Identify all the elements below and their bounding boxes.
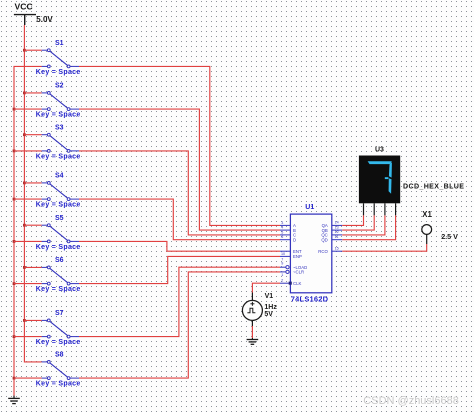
pin C of U1 — [280, 234, 290, 236]
svg-text:U3: U3 — [375, 147, 384, 154]
svg-text:11: 11 — [335, 235, 339, 239]
svg-text:X1: X1 — [422, 210, 432, 219]
svg-text:VCC: VCC — [15, 2, 33, 12]
svg-text:S1: S1 — [55, 40, 64, 47]
svg-text:4: 4 — [281, 226, 283, 230]
wire VCC bus to S3 pin — [24, 134, 41, 136]
svg-text:S2: S2 — [55, 83, 64, 90]
wire S7 output to U1 pin ~LOAD — [79, 267, 280, 336]
junction VCC bus at S4 — [23, 182, 26, 185]
svg-text:5: 5 — [281, 230, 283, 234]
pin ENT of U1 — [280, 250, 290, 252]
junction VCC bus at S5 — [23, 224, 26, 227]
svg-text:Key = Space: Key = Space — [36, 339, 81, 346]
wire ground bus to S8 pin — [14, 377, 42, 379]
svg-text:6: 6 — [281, 235, 283, 239]
wire U1 QD to U3 pin 4 — [342, 215, 395, 239]
svg-text:15: 15 — [335, 247, 339, 251]
wire V1 to ground — [251, 326, 253, 338]
svg-text:2: 2 — [281, 279, 283, 283]
svg-text:S3: S3 — [55, 124, 64, 131]
wire ground bus to S7 pin — [14, 336, 42, 338]
pin RCO of U1 — [332, 250, 343, 252]
switch S5 (SPDT, Key = Space) — [42, 224, 79, 243]
pin 2 of U3 — [373, 203, 375, 215]
svg-text:ENP: ENP — [293, 254, 302, 259]
wire U1 QB to U3 pin 2 — [342, 215, 374, 230]
svg-text:Key = Space: Key = Space — [36, 69, 81, 76]
pin 4 of U3 — [395, 203, 397, 215]
ground (left bus) — [8, 396, 20, 404]
switch S4 (SPDT, Key = Space) — [42, 182, 79, 201]
junction ground bus at S5 — [13, 240, 16, 243]
svg-text:CLK: CLK — [293, 281, 301, 286]
svg-text:5.0V: 5.0V — [36, 15, 53, 24]
wire S6 output to U1 pin ENP — [79, 256, 280, 283]
svg-text:9: 9 — [281, 261, 283, 265]
display U3 DCD_HEX_BLUE body — [359, 156, 400, 204]
svg-text:12: 12 — [335, 230, 339, 234]
wire VCC bus to S1 pin — [24, 49, 41, 51]
wire U1 RCO to probe X1 — [342, 244, 426, 251]
svg-text:74LS162D: 74LS162D — [291, 294, 329, 303]
svg-text:S4: S4 — [55, 173, 64, 180]
wire ground bus — [14, 66, 42, 395]
wire U1 QC to U3 pin 3 — [342, 215, 385, 235]
wire ground bus to S4 pin — [14, 198, 42, 200]
switch S1 (SPDT, Key = Space) — [42, 49, 79, 68]
svg-text:S5: S5 — [55, 215, 64, 222]
junction ground bus at S3 — [13, 150, 16, 153]
wire V1 to U1 CLK — [252, 283, 280, 292]
svg-text:S6: S6 — [55, 257, 64, 264]
wire VCC bus to S2 pin — [24, 92, 41, 94]
svg-text:13: 13 — [335, 225, 339, 229]
svg-text:14: 14 — [335, 221, 339, 225]
power symbol VCC 5.0V — [14, 2, 54, 25]
junction VCC bus at S3 — [23, 133, 26, 136]
ground (V1) — [247, 338, 259, 344]
wire S3 output to U1 pin C — [79, 151, 280, 235]
junction ground bus at S6 — [13, 282, 16, 285]
segment b (upper right) of U3 digit 7 — [389, 162, 392, 177]
switch S8 (SPDT, Key = Space) — [42, 361, 79, 380]
svg-text:S8: S8 — [55, 352, 64, 359]
source V1 1Hz 5V — [242, 293, 262, 327]
pin A of U1 — [280, 224, 290, 226]
svg-text:Key = Space: Key = Space — [36, 286, 81, 293]
wire ground bus to S2 pin — [14, 108, 42, 110]
junction VCC bus at S7 — [23, 319, 26, 322]
svg-text:1: 1 — [281, 273, 283, 277]
svg-text:V1: V1 — [265, 293, 274, 300]
junction VCC bus at S6 — [23, 266, 26, 269]
svg-text:1Hz: 1Hz — [264, 304, 277, 311]
svg-text:QD: QD — [321, 237, 327, 242]
wire VCC bus to S4 pin — [24, 182, 41, 184]
wire VCC bus to S6 pin — [24, 266, 41, 268]
wire S1 output to U1 pin A — [79, 66, 280, 225]
svg-text:3: 3 — [281, 221, 283, 225]
svg-text:U1: U1 — [305, 204, 314, 211]
pin QC of U1 — [332, 234, 343, 236]
probe X1 — [422, 225, 432, 244]
segment c (lower right) of U3 digit 7 — [389, 178, 392, 194]
switch S6 (SPDT, Key = Space) — [42, 266, 79, 285]
wire VCC bus to S5 pin — [24, 224, 41, 226]
pin 1 of U3 — [363, 203, 365, 215]
wire ground bus to S5 pin — [14, 240, 42, 242]
svg-text:2.5 V: 2.5 V — [441, 232, 458, 241]
svg-text:D: D — [293, 237, 296, 242]
pin ENP of U1 — [280, 255, 290, 257]
svg-text:Key = Space: Key = Space — [36, 202, 81, 209]
svg-text:DCD_HEX_BLUE: DCD_HEX_BLUE — [403, 182, 464, 190]
wire S2 output to U1 pin B — [79, 109, 280, 230]
svg-text:5V: 5V — [264, 311, 273, 318]
svg-text:Key = Space: Key = Space — [36, 381, 81, 388]
svg-text:~CLR: ~CLR — [293, 270, 304, 275]
pin QA of U1 — [332, 224, 343, 226]
svg-text:10: 10 — [281, 252, 285, 256]
junction ground bus at S2 — [13, 108, 16, 111]
switch S2 (SPDT, Key = Space) — [42, 92, 79, 111]
segment g tick of U3 — [385, 177, 389, 179]
pin CLK of U1 — [280, 282, 290, 284]
wire ground bus to S6 pin — [14, 283, 42, 285]
junction VCC bus at S2 — [23, 92, 26, 95]
segment a (top) of U3 digit 7 — [368, 161, 392, 164]
switch S7 (SPDT, Key = Space) — [42, 319, 79, 338]
pin ~CLR of U1 (active-low bubble) — [280, 271, 286, 273]
wire U1 QA to U3 pin 1 — [342, 215, 363, 225]
wire VCC bus — [24, 25, 41, 362]
pin D of U1 — [280, 239, 290, 241]
wire S8 output to U1 pin ~CLR — [79, 272, 280, 378]
svg-text:CSDN @zhusl6688: CSDN @zhusl6688 — [363, 395, 459, 407]
pin QB of U1 — [332, 229, 343, 231]
junction VCC bus at S1 — [23, 49, 26, 52]
pin B of U1 — [280, 229, 290, 231]
wire S5 output to U1 pin ENT — [79, 241, 280, 251]
svg-text:Key = Space: Key = Space — [36, 112, 81, 119]
wire S4 output to U1 pin D — [79, 199, 280, 240]
wire ground bus to S3 pin — [14, 150, 42, 152]
svg-text:Key = Space: Key = Space — [36, 153, 81, 160]
junction ground bus at S8 — [13, 377, 16, 380]
svg-text:Key = Space: Key = Space — [36, 244, 81, 251]
wire VCC bus to S7 pin — [24, 319, 41, 321]
pin ~LOAD of U1 (active-low bubble) — [280, 266, 286, 268]
switch S3 (SPDT, Key = Space) — [42, 133, 79, 152]
svg-text:S7: S7 — [55, 310, 64, 317]
op IC U1 74LS162D body — [290, 214, 331, 293]
pin 3 of U3 — [384, 203, 386, 215]
junction ground bus at S4 — [13, 198, 16, 201]
junction ground bus at S7 — [13, 335, 16, 338]
pin QD of U1 — [332, 239, 343, 241]
svg-text:RCO: RCO — [318, 249, 328, 254]
